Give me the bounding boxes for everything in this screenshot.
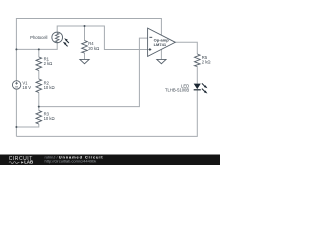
svg-text:LM741: LM741 <box>154 42 167 47</box>
op-amp U1 LM741 <box>148 28 176 56</box>
CircuitLab logo <box>9 156 33 165</box>
svg-text:10 kΩ: 10 kΩ <box>44 85 55 90</box>
resistor R1 <box>36 57 42 71</box>
svg-text:10 kΩ: 10 kΩ <box>44 116 55 121</box>
wire: left rail V1 top segment <box>15 49 17 80</box>
photocell light arrow 1 <box>64 38 69 43</box>
wire: left rail below V1 down to bottom rail <box>15 89 17 136</box>
svg-text:Photocell: Photocell <box>30 35 47 40</box>
photocell light arrow 2 <box>63 42 68 47</box>
node: junction V1/R1/photocell <box>15 48 17 50</box>
node: junction R2/R3 reference <box>38 106 40 108</box>
wire: R4 top lead <box>84 26 86 41</box>
wire: photocell top to R4 junction to op-amp non-inverting input <box>57 26 147 50</box>
svg-text:http://circuitlab.com/c/4449bk: http://circuitlab.com/c/4449bk <box>45 159 97 164</box>
svg-text:2 kΩ: 2 kΩ <box>202 59 211 64</box>
wire: top supply rail from left rail to op-amp V+ <box>16 19 161 50</box>
LED emission arrow 1 <box>202 83 208 88</box>
wire: R2 to R3 through junction <box>38 93 40 111</box>
wire: R1 to R2 <box>38 71 40 80</box>
resistor R2 <box>36 79 42 93</box>
wire: reference divider to op-amp inverting input <box>39 38 148 107</box>
wire: R3 bottom lead to left rail <box>16 124 38 127</box>
voltage source V1 <box>12 81 20 89</box>
wire: V1+ horizontal to R1 top and photocell bottom <box>16 43 57 50</box>
ground (below R4) <box>80 59 89 63</box>
LED D1 <box>194 84 201 90</box>
node: junction R3/left rail <box>15 126 17 128</box>
resistor R3 <box>36 111 42 125</box>
svg-text:TLHB-5100B: TLHB-5100B <box>165 87 189 92</box>
wire: R1 top lead <box>38 49 40 57</box>
node: junction photocell/R4 <box>84 25 86 27</box>
photocell (light dependent resistor) <box>52 32 63 43</box>
wire: op-amp output to R5 <box>175 42 197 54</box>
svg-text:LAB: LAB <box>24 159 33 164</box>
svg-text:20 kΩ: 20 kΩ <box>88 46 99 51</box>
wire: bottom rail <box>16 90 197 136</box>
ground (below op-amp) <box>157 59 166 63</box>
svg-text:18 V: 18 V <box>22 85 31 90</box>
wire: op-amp V- stub to ground <box>160 50 162 60</box>
wire: R4 bottom lead to ground <box>84 53 86 59</box>
LED emission arrow 2 <box>202 89 208 94</box>
svg-text:2 kΩ: 2 kΩ <box>44 61 53 66</box>
resistor R4 <box>82 41 88 54</box>
footer bar <box>0 155 220 166</box>
resistor R5 <box>195 54 201 67</box>
wire: R5 bottom to LED anode <box>196 67 198 84</box>
